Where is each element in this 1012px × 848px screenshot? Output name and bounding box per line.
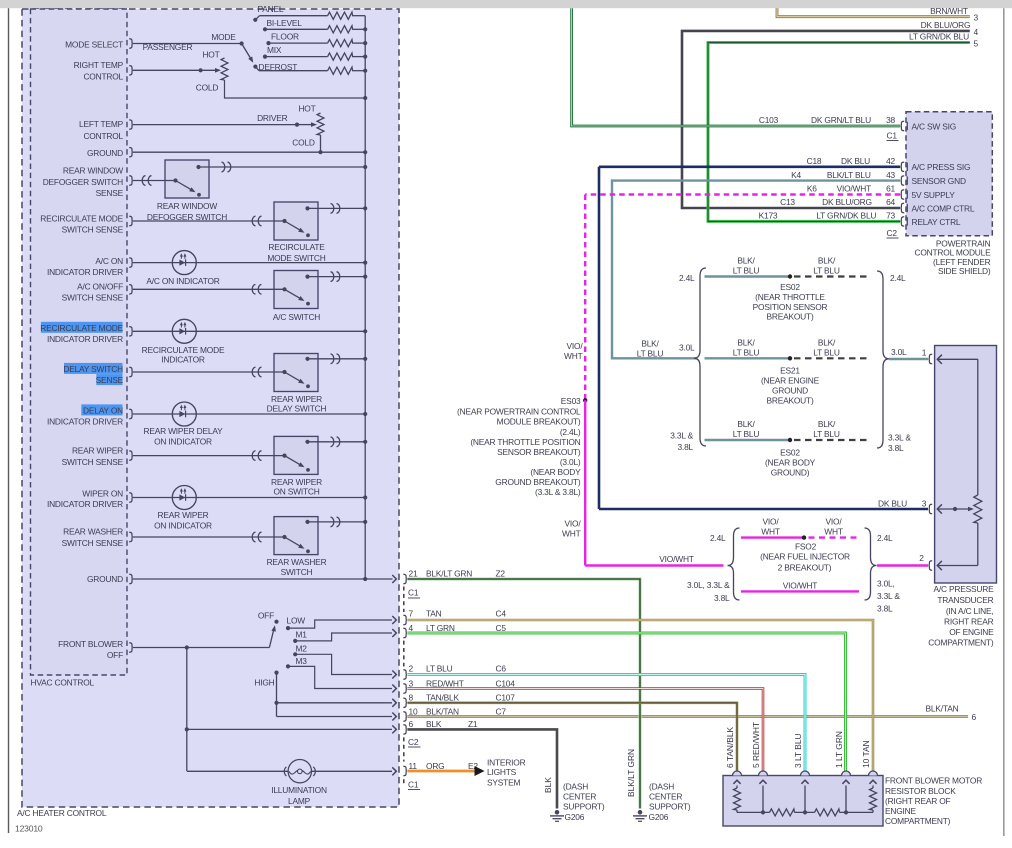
label BLK/LT BLU over dash 2.4L row (813, 256, 840, 276)
svg-text:6 TAN/BLK: 6 TAN/BLK (725, 726, 735, 768)
wire BI-LEVEL row (265, 28, 328, 30)
pin 4 label LT GRN C5 (409, 623, 507, 633)
indicator A/C ON INDICATOR DS1 (133, 251, 365, 275)
pin 5V SUPPLY connector arc (901, 190, 956, 200)
wire FLOOR row (269, 42, 328, 44)
svg-text:RECIRCULATE: RECIRCULATE (268, 242, 325, 252)
svg-text:2.4L: 2.4L (890, 273, 906, 283)
svg-text:VIO/WHT: VIO/WHT (837, 184, 872, 194)
svg-text:10: 10 (409, 706, 418, 716)
transducer internal resistor (974, 495, 982, 523)
svg-text:INTERIOR: INTERIOR (487, 757, 526, 767)
node RECIRCULATE MODE INDICATOR DRIVER label (highlighted) (40, 322, 123, 344)
svg-text:C18: C18 (807, 156, 822, 166)
svg-text:TAN: TAN (426, 609, 442, 619)
svg-text:Z2: Z2 (496, 568, 506, 578)
svg-text:C1: C1 (887, 130, 898, 140)
svg-text:5: 5 (974, 39, 979, 49)
svg-text:C104: C104 (496, 678, 516, 688)
pin A/C SW SIG connector arc (901, 121, 956, 131)
lamp ILLUMINATION LAMP (284, 760, 315, 783)
wire to illumination lamp (187, 770, 288, 772)
svg-text:RIGHT REAR: RIGHT REAR (944, 617, 994, 627)
svg-text:C2: C2 (887, 228, 898, 238)
svg-text:61: 61 (886, 184, 895, 194)
svg-text:(NEAR POWERTRAIN CONTROL: (NEAR POWERTRAIN CONTROL (457, 407, 581, 417)
svg-text:SWITCH: SWITCH (281, 567, 313, 577)
svg-text:OF ENGINE: OF ENGINE (949, 627, 994, 637)
svg-text:ILLUMINATION: ILLUMINATION (271, 785, 327, 795)
connector C1 label upper (408, 588, 420, 598)
pin A/C PRESS SIG connector arc (901, 162, 971, 172)
module PCM box (906, 112, 992, 236)
svg-text:VIO/WHT: VIO/WHT (659, 554, 694, 564)
svg-text:RELAY CTRL: RELAY CTRL (912, 217, 961, 227)
label ES21 near engine ground breakout (761, 366, 820, 406)
wire 4 LT GRN C5 to blower pin 1 (407, 633, 845, 771)
svg-text:1 LT GRN: 1 LT GRN (834, 731, 844, 768)
wire blower common branch down (186, 648, 188, 772)
svg-text:MODULE BREAKOUT): MODULE BREAKOUT) (497, 417, 581, 427)
svg-text:REAR WASHER: REAR WASHER (267, 557, 327, 567)
svg-text:HOT: HOT (298, 104, 315, 114)
svg-text:DK BLU: DK BLU (878, 498, 907, 508)
svg-text:K6: K6 (807, 184, 817, 194)
pin RELAY CTRL connector arc (901, 217, 961, 227)
transducer wiper line pin 3 (937, 504, 974, 513)
mode switch blade with arrow (242, 44, 252, 60)
svg-text:HIGH: HIGH (254, 677, 274, 687)
label FSO2 near fuel injector 2 breakout (760, 542, 850, 573)
blower internal arrows (733, 780, 876, 784)
wire VIO/WHT 2.4L row solid (741, 536, 804, 538)
svg-text:BLK/: BLK/ (818, 256, 836, 266)
wire 3 RED/WHT C104 to blower pin 5 (407, 689, 763, 771)
label DK BLU 3 at transducer (878, 498, 927, 508)
svg-text:BLK/: BLK/ (737, 337, 755, 347)
svg-text:M2: M2 (296, 643, 308, 653)
label K4 BLK/LT BLU 43 (791, 170, 895, 180)
label 3.3L & 3.8L right (888, 432, 911, 453)
svg-text:(NEAR THROTTLE POSITION: (NEAR THROTTLE POSITION (470, 437, 580, 447)
pin 3 label RED/WHT C104 (409, 678, 516, 688)
svg-text:BREAKOUT): BREAKOUT) (766, 396, 813, 406)
svg-text:SYSTEM: SYSTEM (487, 778, 520, 788)
label BLK/LT BLU over solid 3.0L row (733, 337, 760, 357)
label A/C SWITCH S3 (0, 0, 1, 1)
svg-text:HOT: HOT (202, 50, 219, 60)
svg-text:ON INDICATOR: ON INDICATOR (154, 437, 212, 447)
wire 4 DK BLU/ORG top to PCM pin 64 (682, 31, 970, 208)
mode switch common junction (240, 41, 244, 45)
connector C1 label PCM (887, 130, 899, 140)
svg-text:SWITCH SENSE: SWITCH SENSE (62, 538, 124, 548)
svg-text:GROUND: GROUND (87, 148, 123, 158)
svg-text:2: 2 (409, 664, 414, 674)
svg-text:A/C ON INDICATOR: A/C ON INDICATOR (146, 276, 219, 286)
resistor blower left leg (734, 786, 741, 813)
svg-text:VIO/: VIO/ (763, 517, 780, 527)
node A/C ON INDICATOR DRIVER label (47, 256, 123, 277)
node BI-LEVEL terminal (263, 27, 267, 31)
node MIX terminal (263, 55, 267, 59)
svg-text:(RIGHT REAR OF: (RIGHT REAR OF (885, 796, 951, 806)
wire 2 LT BLU C6 to blower pin 3 (407, 675, 805, 771)
svg-text:(2.4L): (2.4L) (560, 427, 581, 437)
svg-text:DELAY ON: DELAY ON (83, 405, 123, 415)
svg-text:G206: G206 (565, 812, 585, 822)
pin 1 connector arc transducer (929, 354, 933, 363)
node REAR WIPER SWITCH SENSE label (62, 446, 124, 467)
svg-text:VIO/: VIO/ (567, 341, 584, 351)
svg-text:RESISTOR BLOCK: RESISTOR BLOCK (885, 786, 956, 796)
wire 21 BLK/LT GRN Z2 to ground (407, 579, 640, 809)
switch REAR WASHER SWITCH S6 (133, 517, 365, 555)
svg-text:FRONT BLOWER MOTOR: FRONT BLOWER MOTOR (885, 776, 982, 786)
svg-text:COMPARTMENT): COMPARTMENT) (885, 816, 951, 826)
svg-text:DK BLU: DK BLU (841, 156, 870, 166)
connector dashed body segments at HVAC right edge (403, 587, 405, 787)
svg-text:A/C SWITCH: A/C SWITCH (273, 312, 320, 322)
splice 3.0L row (788, 356, 792, 360)
wire branch to pin 6 (187, 728, 392, 730)
node LEFT TEMP CONTROL label (79, 119, 124, 141)
svg-text:ORG: ORG (426, 761, 444, 771)
brace left FSO2 (728, 528, 740, 600)
svg-text:6: 6 (409, 719, 414, 729)
svg-text:BLK/TAN: BLK/TAN (426, 706, 459, 716)
svg-text:3.8L: 3.8L (877, 603, 893, 613)
node DEFROST terminal (253, 65, 257, 69)
node DELAY SWITCH SENSE label (highlighted) (63, 363, 123, 385)
svg-text:RIGHT TEMP: RIGHT TEMP (74, 60, 124, 70)
splice 3.3L-3.8L row (788, 438, 792, 442)
svg-text:HVAC CONTROL: HVAC CONTROL (31, 678, 95, 688)
svg-text:2.4L: 2.4L (679, 273, 695, 283)
svg-text:2.4L: 2.4L (877, 533, 893, 543)
svg-text:BLK: BLK (543, 777, 553, 793)
wire GROUND row to Z2 output (133, 578, 393, 580)
svg-text:2.4L: 2.4L (710, 533, 726, 543)
svg-text:C7: C7 (496, 706, 507, 716)
connector C1 label lower (408, 779, 420, 789)
svg-text:INDICATOR DRIVER: INDICATOR DRIVER (47, 334, 123, 344)
svg-text:C1: C1 (408, 588, 419, 598)
A/C HEATER CONTROL outer dashed box (22, 9, 399, 807)
transducer internal line pin 2 (937, 561, 978, 570)
wire MODE SELECT to mode switch common (133, 43, 242, 45)
svg-text:3.8L: 3.8L (677, 442, 693, 452)
pin 8 label TAN/BLK C107 (409, 693, 516, 703)
wire 2.4L row dashed BLK/LT BLU (794, 275, 870, 277)
label BLK/LT BLU over dash 3.0L row (813, 337, 840, 357)
svg-text:123010: 123010 (15, 824, 43, 834)
wire 3.0L row to transducer pin 1 (889, 358, 928, 360)
svg-text:ON INDICATOR: ON INDICATOR (154, 520, 212, 530)
pin 7 label TAN C4 (409, 609, 507, 619)
svg-text:VIO/: VIO/ (826, 517, 843, 527)
label REAR WIPER ON INDICATOR DS4 (154, 510, 212, 530)
splice FSO2 dot (802, 535, 806, 539)
svg-text:CONTROL: CONTROL (83, 72, 123, 82)
svg-text:WHT: WHT (761, 527, 780, 537)
svg-text:DK BLU/ORG: DK BLU/ORG (822, 197, 872, 207)
wire driver pot cold leg to ground row (320, 135, 322, 152)
svg-text:(NEAR BODY: (NEAR BODY (530, 467, 581, 477)
svg-text:SUPPORT): SUPPORT) (563, 802, 605, 812)
svg-text:LT BLU: LT BLU (813, 347, 840, 357)
svg-text:DK BLU/ORG: DK BLU/ORG (921, 20, 971, 30)
svg-text:MODE SWITCH: MODE SWITCH (267, 253, 325, 263)
svg-text:6: 6 (972, 712, 977, 722)
svg-text:(NEAR BODY: (NEAR BODY (765, 458, 816, 468)
pin 6 label BLK Z1 (409, 719, 478, 729)
svg-text:3.3L &: 3.3L & (877, 591, 900, 601)
svg-text:Z1: Z1 (468, 719, 478, 729)
svg-text:BLK/LT GRN: BLK/LT GRN (426, 568, 472, 578)
svg-text:SENSOR BREAKOUT): SENSOR BREAKOUT) (497, 447, 581, 457)
svg-text:DELAY SWITCH: DELAY SWITCH (267, 403, 327, 413)
node GROUND label 2 (87, 574, 123, 584)
svg-text:PANEL: PANEL (258, 4, 284, 14)
svg-text:CENTER: CENTER (649, 792, 682, 802)
svg-text:POSITION SENSOR: POSITION SENSOR (753, 302, 828, 312)
svg-text:BLK/LT GRN: BLK/LT GRN (626, 749, 636, 797)
svg-text:21: 21 (409, 568, 418, 578)
svg-text:REAR WIPER: REAR WIPER (271, 394, 322, 404)
pin SENSOR GND connector arc (901, 176, 966, 186)
label DASH CENTER SUPPORT (2) (649, 782, 691, 812)
svg-text:43: 43 (886, 170, 895, 180)
svg-text:ES02: ES02 (780, 448, 800, 458)
svg-text:LAMP: LAMP (288, 796, 311, 806)
svg-text:M3: M3 (296, 656, 308, 666)
label RECIRCULATE MODE SWITCH S2 (0, 0, 1, 1)
svg-text:GROUND: GROUND (772, 386, 808, 396)
svg-text:(NEAR THROTTLE: (NEAR THROTTLE (755, 292, 825, 302)
svg-text:3: 3 (409, 678, 414, 688)
label REAR WIPER ON SWITCH S5 (0, 0, 1, 1)
svg-text:LEFT TEMP: LEFT TEMP (79, 119, 124, 129)
svg-text:SENSE: SENSE (96, 188, 124, 198)
wire C18 DK BLU to PCM pin 42 and transducer pin 3 (599, 166, 900, 169)
svg-text:VIO/WHT: VIO/WHT (783, 581, 818, 591)
wire FSO2 brace to transducer pin 2 (877, 564, 928, 566)
label VIO/WHT over solid 2.4L (761, 517, 780, 537)
svg-text:INDICATOR DRIVER: INDICATOR DRIVER (47, 416, 123, 426)
wire 3.3L-3.8L row solid BLK/LT BLU (705, 439, 791, 441)
svg-text:BLK/TAN: BLK/TAN (926, 703, 959, 713)
svg-text:COLD: COLD (196, 83, 219, 93)
svg-text:INDICATOR DRIVER: INDICATOR DRIVER (47, 499, 123, 509)
label RECIRCULATE MODE INDICATOR DS2 (142, 345, 225, 365)
wire lamp to pin 11 (312, 770, 393, 772)
svg-text:REAR WIPER: REAR WIPER (157, 510, 208, 520)
svg-text:LT BLU: LT BLU (813, 429, 840, 439)
wire 7 TAN C4 to blower pin 10 (407, 620, 873, 771)
wire 3.0L row dashed BLK/LT BLU (794, 357, 870, 359)
svg-text:LOW: LOW (287, 616, 306, 626)
svg-text:7: 7 (409, 609, 414, 619)
label C13 DK BLU/ORG 64 (780, 197, 895, 207)
svg-text:LT GRN/DK BLU: LT GRN/DK BLU (909, 32, 969, 42)
node A/C ON/OFF SWITCH SENSE label (62, 282, 124, 303)
node GROUND label (87, 148, 123, 158)
svg-text:3.0L,: 3.0L, (877, 578, 895, 588)
svg-text:SWITCH SENSE: SWITCH SENSE (62, 224, 124, 234)
svg-text:(NEAR FUEL INJECTOR: (NEAR FUEL INJECTOR (760, 551, 850, 561)
node LOW terminal and wire to pin 7 (286, 626, 290, 630)
label A/C ON INDICATOR DS1 (146, 276, 219, 286)
wire C103 DK GRN/LT BLU to PCM pin 38 (572, 8, 901, 126)
svg-text:2: 2 (919, 553, 924, 563)
svg-text:5 RED/WHT: 5 RED/WHT (751, 722, 761, 768)
svg-text:REAR WINDOW: REAR WINDOW (63, 166, 123, 176)
svg-text:3.3L &: 3.3L & (670, 431, 693, 441)
arrow interior lights system (475, 766, 485, 776)
passenger wiper junction (199, 68, 203, 72)
label C103 DK GRN/LT BLU 38 (759, 115, 896, 125)
node OFF terminal (274, 620, 278, 624)
label 3.0L 3.3L 3.8L left FSO2 (687, 580, 730, 603)
svg-text:8: 8 (409, 693, 414, 703)
svg-text:SIDE SHIELD): SIDE SHIELD) (938, 266, 991, 276)
svg-text:C5: C5 (496, 623, 507, 633)
svg-text:RECIRCULATE MODE: RECIRCULATE MODE (40, 323, 123, 333)
svg-text:LT BLU: LT BLU (637, 349, 664, 359)
svg-text:ES02: ES02 (780, 282, 800, 292)
svg-text:ON SWITCH: ON SWITCH (273, 486, 319, 496)
svg-text:73: 73 (886, 211, 895, 221)
label REAR WIPER DELAY SWITCH (267, 394, 327, 414)
svg-text:3.0L, 3.3L &: 3.0L, 3.3L & (687, 580, 730, 590)
svg-text:MODE SELECT: MODE SELECT (65, 40, 123, 50)
connector arcs at HVAC right edge (403, 574, 407, 775)
svg-text:3.3L &: 3.3L & (888, 432, 911, 442)
wire 10 BLK/TAN C7 horizontal (407, 715, 968, 718)
svg-text:TAN/BLK: TAN/BLK (426, 693, 459, 703)
pin 21 label BLK/LT GRN Z2 (409, 568, 506, 578)
resistor DEFROST (328, 67, 353, 74)
svg-text:REAR WIPER: REAR WIPER (271, 477, 322, 487)
svg-text:RECIRCULATE MODE: RECIRCULATE MODE (40, 213, 123, 223)
wire passenger pot cold leg to bus (225, 80, 366, 98)
node REAR WINDOW DEFOGGER SWITCH SENSE label (43, 166, 124, 198)
svg-text:3.8L: 3.8L (714, 593, 730, 603)
svg-text:ENGINE: ENGINE (885, 806, 917, 816)
connector arcs on HVAC CONTROL right edge (129, 39, 133, 652)
indicator REAR WIPER ON INDICATOR DS4 (133, 486, 365, 510)
svg-text:42: 42 (886, 156, 895, 166)
svg-text:SWITCH SENSE: SWITCH SENSE (62, 457, 124, 467)
node RIGHT TEMP CONTROL label (74, 60, 124, 82)
driver wiper junction (295, 123, 299, 127)
brace right engine options (877, 271, 889, 448)
svg-text:LT GRN: LT GRN (426, 623, 455, 633)
pin 11 label ORG E2 (409, 761, 479, 771)
svg-text:INDICATOR: INDICATOR (161, 354, 205, 364)
node M1 terminal and wire to pin 4 (293, 639, 297, 643)
pin A/C COMP CTRL connector arc (901, 203, 975, 213)
wire GROUND row to bus (133, 151, 365, 153)
svg-text:DK GRN/LT BLU: DK GRN/LT BLU (811, 115, 871, 125)
svg-text:A/C SW SIG: A/C SW SIG (912, 121, 957, 131)
label REAR WIPER DELAY SWITCH S4 (0, 0, 1, 1)
label REAR WINDOW DEFOGGER SWITCH S1 (0, 0, 1, 1)
svg-text:C1: C1 (408, 779, 419, 789)
svg-text:WHT: WHT (564, 351, 583, 361)
pin 3 connector arc transducer (929, 504, 933, 513)
brace right FSO2 (865, 528, 877, 600)
indicator RECIRCULATE MODE INDICATOR DS2 (133, 319, 365, 343)
svg-text:LT GRN/DK BLU: LT GRN/DK BLU (816, 211, 876, 221)
label K173 LT GRN/DK BLU 73 (759, 211, 896, 221)
node REAR WASHER SWITCH SENSE label (62, 527, 124, 548)
wire 2.4L row solid BLK/LT BLU (705, 275, 791, 277)
switch REAR WINDOW DEFOGGER SWITCH S1 (133, 160, 365, 198)
label REAR WINDOW DEFOGGER SWITCH (147, 201, 227, 222)
svg-text:LT BLU: LT BLU (733, 347, 760, 357)
node WIPER ON INDICATOR DRIVER label (47, 488, 123, 508)
svg-text:(DASH: (DASH (649, 782, 674, 792)
svg-text:C4: C4 (496, 609, 507, 619)
module FRONT BLOWER MOTOR RESISTOR BLOCK box (723, 776, 883, 827)
svg-text:MIX: MIX (267, 45, 282, 55)
svg-text:BLK/: BLK/ (737, 419, 755, 429)
brace left engine options (694, 268, 706, 446)
wire mode/sense common bus vertical (364, 16, 366, 579)
connector C2 label (408, 737, 421, 747)
indicator REAR WIPER DELAY ON INDICATOR DS3 (133, 402, 365, 426)
label FRONT BLOWER MOTOR RESISTOR BLOCK (885, 776, 982, 826)
svg-text:(3.0L): (3.0L) (560, 457, 581, 467)
switch A/C SWITCH S3 (133, 271, 365, 309)
label INTERIOR LIGHTS SYSTEM (487, 757, 526, 787)
svg-text:A/C PRESS SIG: A/C PRESS SIG (912, 162, 971, 172)
wire 3.0L row solid BLK/LT BLU (705, 357, 791, 359)
node RECIRCULATE MODE SWITCH SENSE label (40, 213, 123, 234)
svg-text:BLK/: BLK/ (818, 337, 836, 347)
wire 5 LT GRN/DK BLU top to PCM pin 73 (708, 43, 970, 222)
svg-text:SUPPORT): SUPPORT) (649, 802, 691, 812)
svg-text:A/C ON: A/C ON (95, 256, 123, 266)
svg-text:SWITCH SENSE: SWITCH SENSE (62, 293, 124, 303)
wire MIX row (265, 56, 328, 58)
label BLK/LT BLU over dash 3.3L-3.8L row (813, 419, 840, 439)
label VIO/WHT over dashed 2.4L (824, 517, 843, 537)
svg-text:(DASH: (DASH (563, 782, 588, 792)
svg-text:BLK/: BLK/ (641, 339, 659, 349)
svg-text:FLOOR: FLOOR (271, 32, 299, 42)
label ES02 near body ground (765, 448, 816, 478)
node FRONT BLOWER OFF label (58, 639, 123, 660)
label ES03 breakout list (457, 396, 581, 497)
pin 2 label LT BLU C6 (409, 664, 507, 674)
label BLK/LT BLU at brace feed (637, 339, 664, 359)
svg-text:COLD: COLD (292, 138, 315, 148)
svg-text:G206: G206 (649, 812, 669, 822)
label A/C PRESSURE TRANSDUCER (IN A/C LINE, RIGHT REAR OF ENGINE COMPARTMENT) (928, 584, 994, 648)
switch RECIRCULATE MODE SWITCH S2 (133, 202, 365, 240)
svg-text:3.0L: 3.0L (679, 343, 695, 353)
svg-text:BLK: BLK (426, 719, 442, 729)
node DELAY ON INDICATOR DRIVER label (highlighted) (47, 404, 123, 426)
svg-text:RECIRCULATE MODE: RECIRCULATE MODE (142, 345, 225, 355)
svg-text:CONTROL: CONTROL (83, 131, 123, 141)
svg-text:11: 11 (409, 761, 418, 771)
svg-text:BLK/LT BLU: BLK/LT BLU (827, 170, 871, 180)
svg-text:2 BREAKOUT): 2 BREAKOUT) (778, 563, 832, 573)
